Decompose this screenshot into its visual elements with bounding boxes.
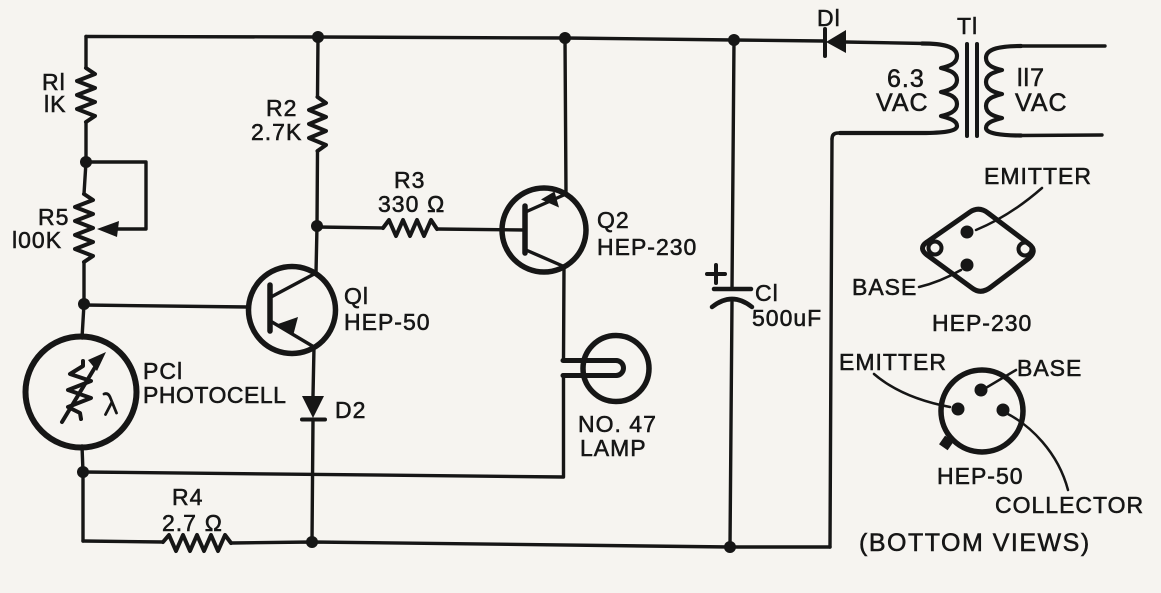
svg-text:330 Ω: 330 Ω (378, 191, 445, 217)
Q2 emitter line (526, 194, 567, 212)
svg-text:D2: D2 (335, 397, 366, 423)
wire primary bottom corner (832, 133, 840, 139)
wire into photocell (82, 304, 84, 338)
svg-text:VAC: VAC (1015, 89, 1068, 117)
svg-text:HEP-230: HEP-230 (597, 234, 697, 260)
resistor R4 (163, 535, 231, 551)
wire right vertical (830, 139, 832, 547)
svg-text:ll7: ll7 (1017, 64, 1045, 92)
wire top rail (86, 37, 824, 42)
node R2 top junction (312, 31, 324, 43)
HEP-50 emitter leader (874, 374, 950, 407)
svg-text:Tl: Tl (957, 13, 978, 39)
lamp circle (583, 336, 649, 402)
HEP-50 emitter pin (952, 403, 965, 416)
plus sign C1 (707, 265, 725, 283)
HEP-50 collector pin (997, 404, 1010, 417)
resistor R1 (77, 68, 95, 122)
transistor Q2 circle (502, 188, 586, 272)
svg-text:EMITTER: EMITTER (839, 349, 947, 375)
wire junction to R5 (84, 162, 86, 194)
Q2 collector line (526, 250, 565, 267)
wire Q1 base (84, 305, 248, 307)
resistor R2 (309, 97, 326, 151)
HEP-230 left mounting hole (929, 242, 942, 255)
svg-text:Cl: Cl (755, 280, 779, 306)
transformer T1 core (965, 44, 969, 136)
HEP-50 base leader (984, 370, 1016, 389)
diode D2 (302, 396, 324, 418)
svg-text:HEP-230: HEP-230 (932, 310, 1032, 336)
node base junction (78, 298, 90, 310)
node R2/R3/Q1 junction (311, 220, 323, 232)
svg-text:PCl: PCl (143, 358, 183, 384)
node Q2 top junction (559, 32, 571, 44)
node D2 bottom junction (306, 536, 318, 548)
svg-text:PHOTOCELL: PHOTOCELL (143, 382, 286, 408)
wire Q1 emitter down (313, 347, 314, 396)
wire Q2 emitter up (565, 38, 566, 194)
wire R5 wiper loop (86, 162, 146, 229)
label lambda (104, 394, 117, 415)
wire bottom rail middle (231, 542, 830, 547)
svg-text:HEP-50: HEP-50 (344, 309, 431, 335)
node lower-left junction (77, 466, 89, 478)
wire R3 to Q2 base (437, 229, 525, 230)
Q1 emitter line (272, 322, 314, 347)
node C1 bottom junction (724, 541, 736, 553)
Q1 emitter arrow (278, 317, 298, 336)
wire node to R3 (317, 227, 383, 228)
svg-text:BASE: BASE (852, 274, 917, 300)
svg-text:2.7 Ω: 2.7 Ω (162, 510, 223, 536)
wire R1 to junction (84, 122, 87, 162)
Q2 base bar (522, 206, 528, 253)
HEP-50 tab (939, 436, 954, 451)
wire R5 to base node (82, 262, 85, 304)
Q1 collector line (271, 273, 316, 297)
svg-text:EMITTER: EMITTER (984, 163, 1092, 189)
node C1 top junction (728, 34, 740, 46)
svg-text:Ql: Ql (344, 283, 369, 309)
svg-text:VAC: VAC (876, 89, 929, 117)
Q1 base bar (267, 285, 273, 331)
svg-text:LAMP: LAMP (580, 435, 647, 461)
photocell PC1 circle (26, 337, 137, 448)
wire secondary top lead (1018, 44, 1105, 47)
wire left vertical top (84, 37, 87, 69)
wire R2 to node (315, 151, 319, 226)
wire left vertical bottom (81, 472, 84, 541)
diode D1 cathode bar (823, 29, 827, 56)
lamp base cap (616, 361, 624, 376)
svg-text:BASE: BASE (1017, 355, 1082, 381)
wire secondary bottom lead (1018, 133, 1102, 137)
wire photocell to lower junction (82, 446, 83, 472)
transistor Q1 circle (249, 267, 336, 354)
HEP-50 base pin (975, 384, 988, 397)
svg-text:500uF: 500uF (752, 305, 822, 331)
HEP-230 package outline (923, 209, 1034, 291)
photocell arrow (62, 364, 97, 422)
wire Q2 collector down (562, 267, 566, 360)
wire D1 to T1 (845, 42, 925, 44)
HEP-50 collector leader (1006, 413, 1068, 490)
wire lamp return horizontal (83, 376, 564, 477)
wire bottom rail left (83, 541, 163, 542)
HEP-230 base leader (919, 270, 961, 287)
wire D2 to bottom rail (312, 420, 313, 542)
capacitor C1 plates (714, 287, 751, 292)
svg-text:HEP-50: HEP-50 (937, 463, 1024, 489)
resistor R3 (383, 220, 437, 236)
transformer T1 secondary winding (986, 46, 1021, 136)
svg-text:Dl: Dl (817, 5, 841, 31)
svg-text:R3: R3 (394, 167, 425, 193)
svg-text:(BOTTOM VIEWS): (BOTTOM VIEWS) (859, 529, 1091, 557)
svg-text:lK: lK (44, 91, 66, 117)
svg-text:NO. 47: NO. 47 (578, 411, 657, 437)
diode D1 triangle (826, 30, 846, 53)
HEP-230 base pin (961, 259, 974, 272)
svg-text:R2: R2 (266, 95, 297, 121)
wire Q1 collector up (316, 226, 317, 273)
potentiometer R5 (75, 194, 93, 262)
wiper arrowhead R5 (97, 221, 119, 237)
wire C1 top (732, 40, 734, 289)
svg-text:R4: R4 (172, 484, 203, 510)
svg-text:COLLECTOR: COLLECTOR (995, 492, 1144, 518)
HEP-230 emitter pin (961, 226, 974, 239)
lamp base bars (563, 358, 616, 363)
wire C1 bottom (730, 302, 732, 547)
svg-text:2.7K: 2.7K (251, 119, 302, 145)
svg-text:l00K: l00K (12, 227, 62, 253)
node R1/R5 junction (80, 156, 92, 168)
photocell zigzag element (68, 361, 91, 419)
Q2 emitter arrow (541, 192, 559, 208)
HEP-50 package circle (941, 370, 1023, 452)
svg-text:Q2: Q2 (597, 207, 630, 233)
HEP-230 emitter leader (976, 188, 1042, 230)
wire R2 top (316, 37, 320, 97)
transformer T1 primary winding (840, 44, 957, 134)
HEP-230 right mounting hole (1019, 243, 1032, 256)
